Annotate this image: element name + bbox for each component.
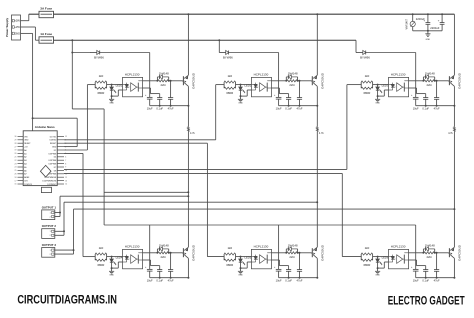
pin 9 D7 — [57, 166, 64, 168]
svg-text:47uF: 47uF — [297, 106, 303, 110]
connector J4 OUTPUT 3 — [42, 243, 57, 257]
LED5 — [239, 256, 252, 269]
capacitor C5c 47uF — [297, 252, 303, 283]
+28V top bus — [54, 13, 455, 15]
svg-text:1: 1 — [50, 250, 51, 252]
wire D8 to gate driver 6 (bottom) — [64, 173, 342, 256]
svg-text:7: 7 — [65, 160, 66, 162]
pin 19 A0 — [18, 149, 24, 151]
pin 28 RESET — [18, 142, 24, 144]
svg-text:1k0: 1k0 — [227, 246, 232, 250]
svg-text:BYW96: BYW96 — [360, 55, 370, 59]
svg-text:30: 30 — [15, 136, 17, 138]
diode D2 1N4148 — [157, 71, 169, 80]
wire LED cathode to opto pin 3 — [111, 90, 123, 97]
pin 30 VIN — [18, 135, 24, 137]
wire phase node from top stage — [187, 106, 189, 127]
wire to IGBT gate — [435, 252, 449, 254]
wire opto VEE to cap — [409, 260, 426, 270]
wire IGBT emitter to bottom rail — [187, 258, 189, 278]
op-amp U4 HCPL2130 optocoupler — [123, 245, 143, 269]
wire input stage2 top — [216, 84, 224, 86]
capacitor C4a 10uF — [145, 267, 153, 282]
capacitor C7 2200uF — [416, 13, 431, 31]
svg-text:0.1uF: 0.1uF — [422, 278, 429, 282]
pin 11 D9/PWM — [57, 173, 64, 175]
wire opto output to gate network — [143, 252, 159, 254]
transistor Q1 G4PC50UD IGBT — [183, 72, 196, 89]
ground (LED3) — [375, 96, 380, 105]
svg-text:D11/PWM/MOSI: D11/PWM/MOSI — [42, 180, 56, 182]
svg-text:10uF: 10uF — [413, 106, 419, 110]
svg-text:47uF: 47uF — [434, 106, 440, 110]
resistor R1a 1k0 (stage 4 input) — [95, 246, 106, 260]
resistor R2c 22R — [287, 249, 299, 259]
wire emitter rail — [416, 105, 455, 107]
wire +15V to BYW96 stage3 — [355, 40, 358, 52]
resistor R3c 22R — [424, 77, 436, 87]
svg-text:A4: A4 — [24, 162, 26, 165]
svg-text:D1/TX1: D1/TX1 — [50, 136, 56, 138]
svg-text:10uF: 10uF — [276, 106, 282, 110]
op-amp U1 HCPL2130 optocoupler — [123, 73, 143, 97]
svg-text:22Ω: 22Ω — [426, 83, 431, 87]
varistor RV1 — [405, 13, 415, 31]
svg-text:G4PC50UD: G4PC50UD — [320, 244, 324, 261]
wire to IGBT gate — [298, 80, 312, 82]
svg-text:RESET: RESET — [50, 143, 57, 145]
resistor R2b 680R — [224, 254, 235, 267]
wire D0 to gate driver 2 (top) — [64, 85, 216, 140]
fuse F1 3A — [39, 7, 54, 18]
wire to IGBT gate — [169, 252, 183, 254]
resistor R3b 680R — [361, 254, 372, 267]
svg-text:22Ω: 22Ω — [289, 255, 294, 259]
svg-text:17: 17 — [15, 180, 17, 182]
svg-text:20: 20 — [15, 153, 17, 155]
wire OUTPUT 2 to phase — [55, 201, 318, 235]
wire to IGBT gate — [435, 80, 449, 82]
connector J3 OUTPUT 2 — [42, 224, 57, 238]
resistor R1a 1k0 (stage 1 input) — [95, 74, 106, 88]
svg-text:GND: GND — [109, 103, 114, 105]
wire phase node from top stage — [453, 106, 455, 127]
svg-text:27: 27 — [15, 146, 17, 148]
svg-text:VAR1407: VAR1407 — [405, 18, 408, 29]
pin 14 D12/MISO — [57, 183, 64, 185]
wire input stage5 bottom — [207, 256, 224, 258]
wire to LED junction — [107, 84, 123, 86]
capacitor C3c 47uF — [434, 80, 440, 111]
svg-text:GND: GND — [375, 103, 380, 105]
pin 24 A5 — [18, 166, 24, 168]
pin 6 D4 — [57, 156, 64, 158]
transistor Q3 G4PC50UD IGBT — [449, 72, 462, 89]
svg-text:+28V: +28V — [14, 20, 20, 23]
svg-text:GND: GND — [24, 140, 29, 142]
wire input stage4 bottom — [83, 256, 95, 258]
wire opto output to gate network — [272, 252, 288, 254]
svg-text:24: 24 — [15, 167, 17, 169]
resistor R3b 680R — [361, 82, 372, 95]
wire filter bottom rail — [413, 30, 442, 32]
capacitor C2b 0.1uF — [285, 98, 292, 111]
svg-text:G4PC50UD: G4PC50UD — [320, 72, 324, 89]
wire to LED junction — [373, 256, 389, 258]
wire input stage6 bottom — [342, 256, 361, 258]
svg-text:680R: 680R — [363, 91, 370, 95]
resistor R2a 1k0 (stage 2 input) — [224, 74, 235, 88]
LED2 — [239, 84, 252, 97]
LED4 — [110, 256, 123, 269]
resistor R2b 680R — [224, 82, 235, 95]
capacitor C8 2200uF — [430, 13, 444, 31]
op-amp U2 HCPL2130 optocoupler — [251, 73, 271, 97]
svg-text:D2: D2 — [54, 150, 56, 152]
svg-text:22Ω: 22Ω — [160, 83, 165, 87]
wire +15V to BYW96 stage2 — [218, 39, 220, 52]
pin 22 A3 — [18, 159, 24, 161]
svg-text:D12/MISO: D12/MISO — [47, 184, 56, 186]
svg-text:4.7k: 4.7k — [319, 132, 324, 135]
transistor Q5 G4PC50UD IGBT — [311, 244, 324, 261]
svg-text:10uF: 10uF — [413, 278, 419, 282]
Arduino Nano U7 — [15, 125, 68, 193]
ground (LED5) — [238, 268, 243, 277]
resistor R3a 1k0 (stage 3 input) — [361, 74, 372, 88]
wire opto VEE to cap — [143, 260, 160, 270]
op-amp U5 HCPL2130 optocoupler — [251, 245, 271, 269]
svg-text:3V3: 3V3 — [24, 180, 27, 182]
wire IGBT emitter to bottom rail — [316, 258, 318, 278]
pin 4 D2 — [57, 149, 64, 151]
wire opto VEE to cap — [272, 260, 289, 270]
svg-text:OUTPUT 3: OUTPUT 3 — [42, 243, 57, 247]
pin 17 3V3 — [18, 180, 24, 182]
svg-text:680R: 680R — [226, 263, 233, 267]
svg-text:A5: A5 — [24, 166, 26, 169]
svg-text:1N4148: 1N4148 — [159, 243, 169, 247]
wire IGBT collector to +28V bus — [187, 13, 189, 75]
svg-text:2: 2 — [65, 146, 66, 148]
wire opto output to gate network — [409, 80, 425, 82]
svg-text:680R: 680R — [97, 263, 104, 267]
wire LED cathode to opto pin 3 — [111, 262, 123, 269]
ground (LED4) — [109, 268, 114, 277]
pin 21 A2 — [18, 156, 24, 158]
resistor R1d 4.7k (phase bleeder) — [187, 127, 195, 135]
svg-text:HCPL2130: HCPL2130 — [254, 245, 269, 249]
svg-text:D4: D4 — [54, 157, 56, 159]
svg-text:D13/SCK: D13/SCK — [24, 184, 33, 186]
transistor Q2 G4PC50UD IGBT — [311, 72, 324, 89]
svg-text:G4PC50UD: G4PC50UD — [457, 72, 461, 89]
svg-text:6: 6 — [65, 157, 66, 159]
capacitor C5b 0.1uF — [285, 270, 292, 283]
wire OUTPUT 3 to phase — [55, 208, 456, 254]
svg-text:2: 2 — [50, 254, 51, 256]
pin 2 GND — [57, 146, 64, 148]
wire VCC drop to caps — [415, 53, 417, 98]
wire IGBT emitter to floating rail — [316, 86, 318, 106]
svg-text:G4PC50UD: G4PC50UD — [191, 72, 195, 89]
svg-text:LED1: LED1 — [116, 84, 123, 88]
transistor Q4 G4PC50UD IGBT — [183, 244, 196, 261]
svg-text:0.1uF: 0.1uF — [285, 106, 292, 110]
wire opto VEE to cap — [409, 88, 426, 98]
wire IGBT collector to phase node — [187, 131, 189, 247]
+15V bus — [54, 39, 357, 41]
wire input stage3 top — [347, 84, 362, 86]
wire emitter rail — [279, 105, 318, 107]
svg-text:D10/PWM/SS: D10/PWM/SS — [45, 177, 57, 179]
resistor R1c 22R — [158, 77, 170, 87]
svg-text:0.1uF: 0.1uF — [156, 278, 163, 282]
svg-text:1N4148: 1N4148 — [159, 71, 169, 75]
wire to LED junction — [236, 84, 252, 86]
svg-text:AREF: AREF — [24, 176, 30, 179]
svg-text:8: 8 — [65, 163, 66, 165]
wire IGBT collector to phase node — [453, 131, 455, 247]
svg-text:10: 10 — [65, 170, 67, 172]
wire VCC feed drop — [278, 225, 280, 269]
wire VCC drop to caps — [149, 53, 151, 98]
resistor R2a 1k0 (stage 5 input) — [224, 246, 235, 260]
pin 18 AREF — [18, 176, 24, 178]
capacitor C1c 47uF — [168, 80, 174, 111]
svg-text:10uF: 10uF — [147, 106, 153, 110]
svg-text:1A Fuse: 1A Fuse — [40, 32, 52, 36]
capacitor C6c 47uF — [434, 252, 440, 283]
svg-text:22Ω: 22Ω — [160, 255, 165, 259]
capacitor C1a 10uF — [145, 95, 153, 110]
svg-text:A3: A3 — [24, 159, 26, 162]
pin 8 D6/PWM — [57, 163, 64, 165]
wire IGBT collector to +28V bus — [316, 13, 318, 75]
wire opto output to gate network — [143, 80, 159, 82]
svg-text:D3/PWM: D3/PWM — [49, 153, 57, 155]
svg-text:+15V: +15V — [14, 26, 20, 29]
connector J2 OUTPUT 1 — [42, 205, 57, 219]
ground (LED1) — [109, 96, 114, 105]
svg-text:HCPL2130: HCPL2130 — [125, 245, 140, 249]
svg-text:RESET: RESET — [24, 143, 31, 145]
svg-text:1N4148: 1N4148 — [288, 243, 298, 247]
pin 1 D0/RX0 — [57, 139, 64, 141]
wire aux branch to phase 1 — [104, 191, 189, 193]
resistor R1b 680R — [95, 82, 106, 95]
pin 16 D13/SCK — [18, 183, 24, 185]
pin 23 A4 — [18, 163, 24, 165]
svg-text:680R: 680R — [97, 91, 104, 95]
wire emitter rail — [150, 105, 189, 107]
svg-text:680R: 680R — [363, 263, 370, 267]
svg-text:HCPL2130: HCPL2130 — [391, 245, 406, 249]
svg-text:LED2: LED2 — [245, 84, 252, 88]
diode D2 BYW96 — [219, 50, 278, 59]
svg-text:OUTPUT 2: OUTPUT 2 — [42, 224, 57, 228]
wire +15V from supply to fuse — [21, 27, 40, 40]
wire +15V to BYW96 stage1 — [71, 52, 91, 54]
svg-text:12: 12 — [65, 177, 67, 179]
wire VCC feed drop — [415, 225, 417, 269]
svg-text:47uF: 47uF — [168, 278, 174, 282]
wire +15V branch to low-side VCC feed — [71, 39, 415, 225]
svg-text:1N4148: 1N4148 — [288, 71, 298, 75]
capacitor C1b 0.1uF — [156, 98, 163, 111]
svg-text:47uF: 47uF — [297, 278, 303, 282]
resistor R2d 4.7k (phase bleeder) — [316, 127, 324, 135]
svg-text:GND: GND — [238, 103, 243, 105]
wire IGBT collector to phase node — [316, 131, 318, 247]
wire RESET row to gate driver 5 (bottom) — [64, 143, 207, 256]
wire to LED junction — [236, 256, 252, 258]
svg-text:BYW96: BYW96 — [94, 55, 104, 59]
wire opto VEE to cap — [272, 88, 289, 98]
wire opto output to gate network — [272, 80, 288, 82]
svg-text:D5/PWM: D5/PWM — [49, 160, 57, 162]
wire input stage1 top — [87, 84, 95, 86]
svg-text:1: 1 — [50, 212, 51, 214]
resistor R2c 22R — [287, 77, 299, 87]
pin 25 A6 — [18, 169, 24, 171]
pin 3 RESET — [57, 142, 64, 144]
resistor R3d 4.7k (phase bleeder) — [448, 127, 455, 135]
svg-text:D8: D8 — [54, 170, 56, 172]
pin 26 A7 — [18, 173, 24, 175]
wire IGBT emitter to floating rail — [187, 86, 189, 106]
svg-text:G4PC50UD: G4PC50UD — [457, 244, 461, 261]
svg-text:GND: GND — [426, 39, 431, 41]
svg-text:ELECTRO GADGET: ELECTRO GADGET — [388, 293, 465, 307]
capacitor C2c 47uF — [297, 80, 303, 111]
svg-text:23: 23 — [15, 163, 17, 165]
svg-text:2: 2 — [50, 235, 51, 237]
wire GND from supply — [21, 33, 78, 146]
diode D5 1N4148 — [157, 243, 169, 252]
wire D7 to gate driver 3 (top) — [64, 85, 347, 170]
Arduino logo diamond — [40, 165, 51, 177]
svg-text:HCPL2130: HCPL2130 — [125, 73, 140, 77]
svg-text:0.1uF: 0.1uF — [285, 278, 292, 282]
svg-text:10uF: 10uF — [147, 278, 153, 282]
svg-text:21: 21 — [15, 157, 17, 159]
pin 12 D10/PWM/SS — [57, 176, 64, 178]
svg-text:13: 13 — [65, 180, 67, 182]
capacitor C6a 10uF — [411, 267, 419, 282]
capacitor C6b 0.1uF — [422, 270, 429, 283]
svg-text:GND: GND — [109, 275, 114, 277]
svg-text:31: 31 — [65, 136, 67, 138]
wire LED cathode to opto pin 3 — [240, 90, 252, 97]
wire to IGBT gate — [169, 80, 183, 82]
svg-text:1: 1 — [50, 231, 51, 233]
ground (LED6) — [375, 268, 380, 277]
resistor R1c 22R — [158, 249, 170, 259]
svg-text:GND: GND — [52, 146, 57, 148]
ground (filter) — [425, 31, 430, 41]
svg-text:LED5: LED5 — [245, 256, 252, 260]
wire to LED junction — [373, 84, 389, 86]
wire D3 to gate driver 4 (bottom) — [64, 153, 83, 256]
wire phase node from top stage — [316, 106, 318, 127]
svg-text:1k0: 1k0 — [365, 246, 370, 250]
op-amp U6 HCPL2130 optocoupler — [389, 245, 409, 269]
svg-text:22Ω: 22Ω — [289, 83, 294, 87]
svg-text:22: 22 — [15, 160, 17, 162]
transistor Q6 G4PC50UD IGBT — [449, 244, 462, 261]
svg-text:HCPL2130: HCPL2130 — [391, 73, 406, 77]
op-amp U3 HCPL2130 optocoupler — [389, 73, 409, 97]
svg-text:47uF: 47uF — [434, 278, 440, 282]
svg-text:2200uF: 2200uF — [416, 17, 425, 21]
svg-text:4.7k: 4.7k — [448, 132, 453, 135]
wire IGBT emitter to bottom rail — [453, 258, 455, 278]
svg-text:OUTPUT 1: OUTPUT 1 — [42, 205, 57, 209]
svg-text:A7: A7 — [24, 173, 26, 176]
svg-text:1N4148: 1N4148 — [425, 71, 435, 75]
svg-text:18: 18 — [15, 177, 17, 179]
svg-text:3A Fuse: 3A Fuse — [40, 7, 52, 11]
svg-text:47uF: 47uF — [168, 106, 174, 110]
svg-text:A1: A1 — [24, 152, 26, 155]
svg-text:Power Supply: Power Supply — [5, 18, 9, 38]
wire LED cathode to opto pin 3 — [240, 262, 252, 269]
svg-text:1k0: 1k0 — [99, 246, 104, 250]
wire IGBT emitter to floating rail — [453, 86, 455, 106]
resistor R1b 680R — [95, 254, 106, 267]
svg-text:A0: A0 — [24, 149, 26, 152]
svg-text:2200uF: 2200uF — [430, 26, 439, 30]
svg-text:D0/RX0: D0/RX0 — [50, 140, 57, 142]
svg-text:A6: A6 — [24, 169, 26, 172]
wire LED cathode to opto pin 3 — [377, 262, 389, 269]
ground (LED2) — [238, 96, 243, 105]
pin 10 D8 — [57, 169, 64, 171]
svg-text:LED3: LED3 — [382, 84, 389, 88]
LED3 — [376, 84, 389, 97]
wire emitter rail — [150, 277, 189, 279]
svg-text:D6/PWM: D6/PWM — [49, 163, 57, 165]
svg-text:2: 2 — [50, 216, 51, 218]
svg-text:28: 28 — [15, 143, 17, 145]
diode D6 1N4148 — [286, 243, 298, 252]
svg-text:D9/PWM: D9/PWM — [49, 174, 57, 176]
svg-text:4.7k: 4.7k — [190, 132, 195, 135]
svg-text:1k0: 1k0 — [99, 74, 104, 78]
svg-text:19: 19 — [15, 150, 17, 152]
svg-text:1k0: 1k0 — [365, 74, 370, 78]
svg-text:9: 9 — [65, 167, 66, 169]
power supply connector J1 — [5, 15, 20, 40]
svg-text:1k0: 1k0 — [227, 74, 232, 78]
svg-text:LED6: LED6 — [382, 256, 389, 260]
diode D3 BYW96 — [356, 50, 415, 59]
pin 20 A1 — [18, 152, 24, 154]
capacitor C4b 0.1uF — [156, 270, 163, 283]
pin 29 GND — [18, 139, 24, 141]
pin 31 D1/TX1 — [57, 135, 64, 137]
capacitor C3a 10uF — [411, 95, 419, 110]
wire D2 to gate driver 1 (top) — [64, 85, 87, 150]
svg-text:14: 14 — [65, 184, 67, 186]
svg-text:Arduino Nano: Arduino Nano — [35, 125, 55, 129]
wire OUTPUT 1 to phase — [55, 195, 190, 216]
svg-text:680R: 680R — [226, 91, 233, 95]
capacitor C2a 10uF — [274, 95, 282, 110]
svg-text:25: 25 — [15, 170, 17, 172]
svg-text:26: 26 — [15, 174, 17, 176]
